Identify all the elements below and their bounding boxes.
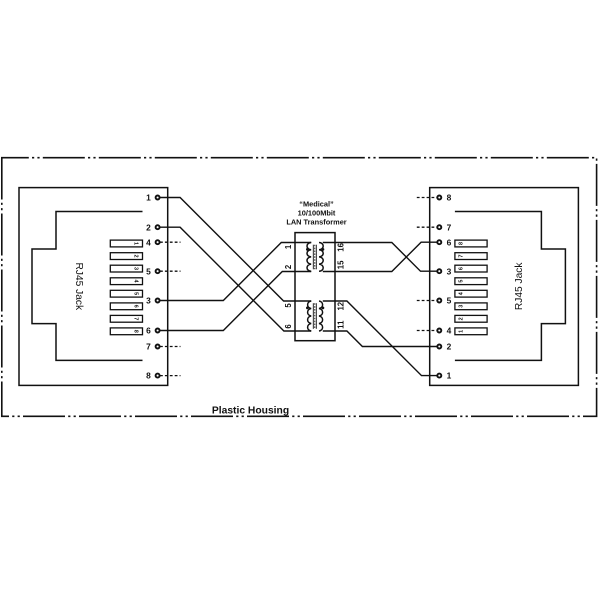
J1 contact bar 1 xyxy=(110,240,142,247)
T1 lower primary winding (left) xyxy=(308,301,312,331)
svg-text:4: 4 xyxy=(146,237,151,247)
wire J1 pin6 to transformer pin2 xyxy=(160,272,312,331)
svg-text:7: 7 xyxy=(133,317,139,320)
J2 contact bar 1 xyxy=(455,328,487,335)
svg-text:1: 1 xyxy=(284,244,293,249)
T1 lower core xyxy=(312,303,314,329)
wire transformer pin16 to J2 pin3 xyxy=(323,243,438,272)
J1 pin 8 no-connect stub xyxy=(160,375,181,377)
T1 upper primary polarity dot xyxy=(306,248,309,251)
wire transformer pin11 to J2 pin2 xyxy=(323,331,438,347)
svg-text:1: 1 xyxy=(459,330,465,333)
RJ45 Jack J1 (left) body xyxy=(19,188,168,386)
svg-text:5: 5 xyxy=(146,266,151,276)
J1 pin 2 terminal circle xyxy=(156,225,160,229)
wire J1 pin2 to transformer pin6 xyxy=(160,227,312,331)
svg-text:Plastic Housing: Plastic Housing xyxy=(212,406,289,417)
svg-text:1: 1 xyxy=(133,242,139,245)
svg-text:5: 5 xyxy=(447,296,452,306)
J2 pin 6 terminal circle xyxy=(437,240,441,244)
J1 pin 5 terminal circle xyxy=(156,269,160,273)
J1 contact bar 6 xyxy=(110,303,142,310)
svg-text:2: 2 xyxy=(459,317,465,320)
T1 upper secondary polarity dot xyxy=(322,248,325,251)
J1 pin 1 terminal circle xyxy=(156,196,160,200)
J2 contact bar 2 xyxy=(455,315,487,322)
J2 pin 5 no-connect stub xyxy=(417,300,437,302)
J1 plug-opening silhouette xyxy=(32,212,143,361)
svg-text:3: 3 xyxy=(146,296,151,306)
svg-text:15: 15 xyxy=(336,260,345,269)
J2 contact bar 8 xyxy=(455,240,487,247)
svg-text:2: 2 xyxy=(284,264,293,269)
svg-text:5: 5 xyxy=(284,303,293,308)
svg-text:7: 7 xyxy=(447,222,452,232)
svg-text:6: 6 xyxy=(459,267,465,270)
svg-text:3: 3 xyxy=(133,267,139,270)
svg-text:1: 1 xyxy=(146,193,151,203)
svg-text:11: 11 xyxy=(336,320,345,329)
J2 pin 8 no-connect stub xyxy=(417,197,437,199)
svg-text:5: 5 xyxy=(459,280,465,283)
svg-text:8: 8 xyxy=(447,193,452,203)
J2 plug-opening silhouette xyxy=(455,212,566,361)
LAN transformer T1 box xyxy=(295,233,335,341)
svg-text:1: 1 xyxy=(447,371,452,381)
J1 contact bar 2 xyxy=(110,253,142,260)
svg-text:7: 7 xyxy=(146,342,151,352)
plastic housing (dash-dot-dot enclosure border) xyxy=(2,158,597,417)
T1 upper primary winding (left) xyxy=(307,243,311,272)
J2 pin 7 terminal circle xyxy=(437,225,441,229)
svg-text:7: 7 xyxy=(459,255,465,258)
J1 pin 3 terminal circle xyxy=(156,299,160,303)
svg-text:16: 16 xyxy=(336,242,345,251)
T1 lower primary polarity dot xyxy=(306,307,309,310)
svg-text:LAN Transformer: LAN Transformer xyxy=(286,217,346,226)
svg-text:2: 2 xyxy=(146,222,151,232)
J2 contact bar 6 xyxy=(455,265,487,272)
J1 pin 7 terminal circle xyxy=(156,345,160,349)
svg-text:4: 4 xyxy=(447,326,452,336)
J1 pin 7 no-connect stub xyxy=(160,346,181,348)
svg-text:2: 2 xyxy=(447,342,452,352)
J1 contact bar 8 xyxy=(110,328,142,335)
J1 pin 4 terminal circle xyxy=(156,240,160,244)
J1 pin 8 terminal circle xyxy=(156,374,160,378)
svg-text:12: 12 xyxy=(336,301,345,310)
svg-text:6: 6 xyxy=(284,324,293,329)
T1 lower secondary winding (right) xyxy=(319,301,323,331)
svg-text:8: 8 xyxy=(133,330,139,333)
J2 contact bar 4 xyxy=(455,290,487,297)
J1 contact bar 7 xyxy=(110,315,142,322)
J1 contact bar 3 xyxy=(110,265,142,272)
J2 pin 4 no-connect stub xyxy=(417,330,437,332)
svg-text:5: 5 xyxy=(133,292,139,295)
J2 pin 5 terminal circle xyxy=(437,299,441,303)
J1 contact bar 4 xyxy=(110,278,142,285)
svg-text:6: 6 xyxy=(133,305,139,308)
wire transformer pin12 to J2 pin1 xyxy=(323,301,438,376)
wire J1 pin3 to transformer pin1 xyxy=(160,243,312,301)
svg-text:“Medical”: “Medical” xyxy=(299,199,334,208)
RJ45 Jack J2 (right) body xyxy=(430,188,579,386)
svg-text:3: 3 xyxy=(459,305,465,308)
svg-text:2: 2 xyxy=(133,255,139,258)
J2 contact bar 7 xyxy=(455,253,487,260)
J2 pin 2 terminal circle xyxy=(437,345,441,349)
T1 upper core xyxy=(312,245,314,270)
J1 pin 6 terminal circle xyxy=(156,329,160,333)
J2 contact bar 3 xyxy=(455,303,487,310)
svg-text:8: 8 xyxy=(459,242,465,245)
svg-text:10/100Mbit: 10/100Mbit xyxy=(298,209,336,218)
T1 upper secondary winding (right) xyxy=(319,243,323,272)
svg-text:3: 3 xyxy=(447,266,452,276)
J2 pin 4 terminal circle xyxy=(437,329,441,333)
T1 lower secondary polarity dot xyxy=(322,307,325,310)
wire transformer pin15 to J2 pin6 xyxy=(323,242,438,271)
svg-text:RJ45 Jack: RJ45 Jack xyxy=(73,263,84,311)
J2 contact bar 5 xyxy=(455,278,487,285)
J2 pin 3 terminal circle xyxy=(437,269,441,273)
J1 pin 5 no-connect stub xyxy=(160,270,181,272)
svg-text:6: 6 xyxy=(447,237,452,247)
J2 pin 1 terminal circle xyxy=(437,374,441,378)
J2 pin 7 no-connect stub xyxy=(417,226,437,228)
J1 contact bar 5 xyxy=(110,290,142,297)
J1 pin 4 no-connect stub xyxy=(160,241,181,243)
svg-text:8: 8 xyxy=(146,371,151,381)
svg-text:RJ45 Jack: RJ45 Jack xyxy=(514,262,525,310)
wire J1 pin1 to transformer pin5 xyxy=(160,198,312,302)
J2 pin 8 terminal circle xyxy=(437,196,441,200)
svg-text:6: 6 xyxy=(146,326,151,336)
